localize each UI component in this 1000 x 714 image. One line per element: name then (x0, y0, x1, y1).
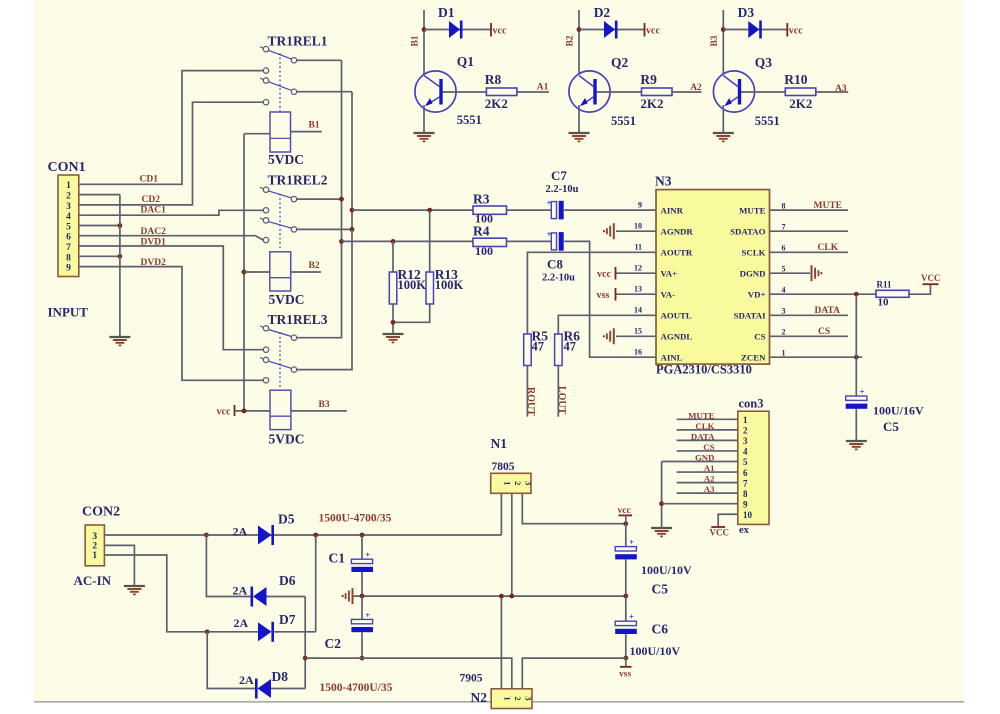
svg-text:6: 6 (782, 244, 786, 253)
svg-text:CON2: CON2 (82, 505, 120, 520)
svg-text:2.2-10u: 2.2-10u (546, 184, 579, 195)
svg-text:2.2-10u: 2.2-10u (542, 273, 575, 284)
wire relay1 coil left to VCC bus (244, 133, 270, 135)
wire con3 pin5 GND (662, 461, 738, 463)
svg-text:C8: C8 (547, 257, 563, 272)
svg-text:8: 8 (66, 253, 71, 263)
svg-text:N1: N1 (491, 436, 508, 451)
svg-text:10: 10 (743, 510, 753, 520)
svg-text:AOUTL: AOUTL (661, 311, 692, 321)
N3 pin12 VA+ stub (616, 272, 657, 274)
svg-text:100: 100 (475, 244, 493, 258)
wire C2 bottom to negative rail (361, 632, 363, 658)
svg-text:DAC2: DAC2 (141, 227, 167, 237)
wire Q1 base to R (443, 91, 487, 93)
svg-text:B2: B2 (309, 261, 320, 271)
wire CON2 pin2 to ground (104, 545, 134, 586)
svg-text:DATA: DATA (691, 431, 715, 441)
svg-text:100U/10V: 100U/10V (630, 644, 681, 658)
svg-text:vcc: vcc (646, 26, 660, 37)
svg-text:SDATAI: SDATAI (734, 311, 767, 321)
wire R4 net from bus V1 (342, 240, 474, 242)
svg-text:MUTE: MUTE (814, 201, 843, 211)
node B2 diode tap (577, 27, 582, 32)
ground of Q2 (569, 132, 590, 134)
svg-text:ROUT: ROUT (525, 387, 536, 416)
svg-text:C5: C5 (652, 582, 669, 597)
ground of Q1 (414, 132, 435, 134)
wire C6 top (625, 596, 627, 621)
svg-text:B3: B3 (710, 35, 720, 46)
wire N3 pin14 to R6 (558, 315, 656, 334)
power port vcc of D1 (490, 23, 492, 37)
svg-text:1500U-4700/35: 1500U-4700/35 (319, 513, 392, 525)
wire R3 to C7 (507, 209, 552, 211)
wire Q3 base to R (741, 91, 785, 93)
svg-text:1: 1 (66, 181, 71, 191)
svg-text:vss: vss (619, 670, 631, 680)
wire N3 pin7 SDATAO stub (770, 230, 849, 232)
wire C7 to N3 pin9 (564, 209, 656, 211)
svg-text:+: + (860, 388, 865, 397)
resistor R10 (785, 88, 816, 96)
svg-text:2: 2 (66, 192, 71, 202)
svg-text:5: 5 (66, 222, 71, 232)
node C2 on negative rail line (360, 656, 365, 661)
relay TR1REL2 actuator dashed line (279, 194, 281, 252)
node bus V2 joins R3 net (350, 208, 355, 213)
svg-text:1: 1 (502, 481, 512, 485)
svg-text:8: 8 (743, 489, 748, 499)
relay TR1REL3 switch B contacts (260, 357, 263, 359)
svg-text:D3: D3 (738, 5, 755, 20)
svg-text:C1: C1 (329, 551, 346, 566)
wire DAC1 from CON1 pin4 to relay2 (79, 210, 263, 215)
wire bus V2 vertical (left channel) (351, 92, 353, 230)
svg-text:DATA: DATA (815, 306, 841, 316)
svg-text:2A: 2A (234, 616, 249, 630)
svg-text:2K2: 2K2 (485, 96, 508, 111)
ground of R12/R13 (383, 333, 404, 335)
wire VCC node down to C5b (625, 524, 627, 547)
ground of CON2 (124, 585, 145, 587)
wire coil B1 output (291, 131, 322, 133)
svg-text:VD+: VD+ (748, 289, 766, 299)
svg-text:2A: 2A (239, 673, 254, 687)
svg-text:2: 2 (92, 542, 97, 552)
sheet bottom border (34, 701, 964, 703)
relay TR1REL1 switch A contacts (260, 47, 263, 49)
svg-text:CLK: CLK (695, 421, 714, 431)
wire diode D1 row (424, 29, 491, 31)
wire CON1 pin2 to ground bus (79, 194, 120, 196)
wire D7 to positive rail riser (273, 631, 316, 633)
wire CD1 from CON1 pin1 to relay1 (79, 71, 263, 185)
svg-text:1: 1 (743, 415, 748, 425)
capacitor C8 (551, 233, 556, 250)
wire con3 pin10 to VCC (718, 514, 738, 527)
wire relay3 poleA to bus V1 (297, 241, 342, 337)
node AC2 branch (205, 629, 210, 634)
node VD+ / C5 junction (854, 292, 859, 297)
wire N3 pin3 SDATAI (770, 314, 849, 316)
wire N3 pin1 ZCEN (770, 356, 863, 358)
diode D1 (449, 21, 460, 38)
resistor R5 (524, 334, 532, 366)
node relay3 coil vcc junction (242, 409, 247, 414)
relay TR1REL2 switch B contacts (260, 218, 263, 220)
wire C5 to ground (855, 409, 857, 441)
wire con3 pin6 A1 (677, 471, 738, 473)
svg-text:2K2: 2K2 (640, 96, 663, 111)
resistor R3 (473, 206, 507, 214)
svg-text:CS: CS (703, 442, 714, 452)
svg-text:VA-: VA- (661, 289, 676, 299)
svg-text:6: 6 (66, 233, 71, 243)
wire C8 to N3 pin16 (564, 241, 656, 357)
svg-text:CD1: CD1 (140, 175, 159, 185)
svg-text:2: 2 (743, 426, 748, 436)
node con3 pin9 ground junction (659, 501, 664, 506)
svg-text:3: 3 (92, 532, 97, 542)
svg-text:+: + (366, 611, 371, 620)
svg-text:D1: D1 (438, 5, 455, 20)
resistor R6 (555, 334, 563, 366)
wire N3 pin4 VD+ to R11 (770, 293, 877, 295)
wire R4 to C8 (507, 240, 552, 242)
N3 pin10 AGNDR stub (616, 230, 656, 232)
svg-text:con3: con3 (739, 397, 764, 411)
svg-text:B2: B2 (566, 35, 576, 46)
wire con3 pin2 CLK (677, 429, 738, 431)
svg-text:+: + (629, 538, 634, 547)
transistor Q3 body (713, 71, 754, 112)
wire CON2 pin3 AC input (104, 534, 206, 536)
svg-text:CLK: CLK (818, 243, 839, 253)
svg-text:4: 4 (743, 447, 748, 457)
resistor R11 (876, 290, 909, 297)
node C5b/C6 midpoint (623, 594, 628, 599)
wire relay2 poleB to bus V2 (297, 228, 352, 230)
wire negative rail riser (304, 597, 306, 689)
svg-text:R10: R10 (784, 72, 807, 87)
N3 pin15 AGNDL stub (616, 335, 656, 337)
diode D2 (604, 21, 615, 38)
svg-text:vcc: vcc (618, 506, 631, 516)
svg-text:A3: A3 (704, 484, 715, 494)
svg-text:7: 7 (66, 243, 71, 253)
svg-text:3: 3 (743, 436, 748, 446)
capacitor C1 (351, 559, 372, 563)
node VSS output (623, 656, 628, 661)
node CON1 pin5 ground (118, 223, 123, 228)
svg-text:100U/16V: 100U/16V (873, 404, 924, 418)
svg-text:2A: 2A (233, 525, 248, 539)
svg-text:SDATAO: SDATAO (730, 226, 766, 236)
ground of CON1 (109, 336, 130, 338)
node bus V1 joins R4 net (339, 239, 344, 244)
wire base net B2 vertical (578, 10, 580, 74)
svg-text:47: 47 (564, 340, 577, 354)
svg-text:6: 6 (743, 468, 748, 478)
svg-text:10: 10 (878, 297, 890, 309)
wire DVD2 from CON1 pin9 to relay3 (79, 267, 263, 381)
wire Q2 emitter down (578, 105, 580, 133)
svg-text:4: 4 (782, 285, 786, 294)
svg-text:2: 2 (513, 696, 523, 700)
wire con3 pin7 A2 (677, 482, 738, 484)
svg-text:R8: R8 (485, 72, 502, 87)
svg-text:D8: D8 (272, 669, 289, 684)
svg-text:+: + (547, 230, 552, 239)
wire coil B3 output (291, 410, 347, 412)
wire N3 pin11 to R5 (527, 252, 656, 334)
svg-text:9: 9 (743, 499, 748, 509)
svg-text:A3: A3 (835, 84, 847, 94)
wire C1 from positive rail (361, 535, 363, 559)
capacitor C5 (100U/10V) (615, 547, 636, 551)
resistor R12 (389, 272, 397, 304)
svg-text:vss: vss (597, 290, 610, 301)
wire CON1 pin5 to ground bus (79, 225, 120, 227)
svg-text:100U/10V: 100U/10V (641, 563, 692, 577)
svg-text:5VDC: 5VDC (269, 292, 305, 307)
wire VD+ node down to C5 (855, 294, 857, 396)
svg-text:R11: R11 (877, 280, 893, 290)
node R13 top on R3 net (427, 208, 432, 213)
capacitor C7 (551, 202, 556, 219)
wire N3 pin8 MUTE (770, 209, 849, 211)
svg-text:CS: CS (818, 327, 830, 337)
wire R9 to A2 (672, 91, 702, 93)
wire bus V1 vertical (right channel) (341, 60, 343, 241)
svg-text:10: 10 (634, 221, 642, 230)
svg-text:DAC1: DAC1 (141, 206, 167, 216)
diode D8 (255, 679, 258, 699)
capacitor C5 (100U/16V) (846, 396, 867, 400)
relay TR1REL2 switch A contacts (260, 187, 263, 189)
svg-text:DVD1: DVD1 (141, 238, 167, 248)
svg-text:3: 3 (523, 696, 533, 700)
wire C6 bottom to VSS node (625, 634, 627, 658)
wire D6 to negative rail riser (267, 596, 306, 598)
svg-text:B1: B1 (411, 35, 421, 46)
wire positive rail riser (315, 535, 317, 632)
wire base net B3 vertical (722, 10, 724, 74)
svg-text:GND: GND (695, 453, 715, 463)
svg-text:5551: 5551 (611, 114, 636, 128)
resistor R4 (473, 238, 507, 246)
node R12 top on R4 net (391, 239, 396, 244)
svg-text:AGNDL: AGNDL (661, 332, 693, 342)
wire DVD1 from CON1 pin7 to relay3 (79, 246, 263, 350)
transistor Q2 body (569, 71, 610, 112)
svg-text:12: 12 (634, 263, 642, 272)
svg-text:CON1: CON1 (48, 160, 86, 175)
node ZCEN / C5 junction (854, 355, 859, 360)
wire D5 row to N1 (206, 534, 501, 536)
wire CD2 from CON1 pin3 to relay1 (79, 102, 263, 205)
relay TR1REL2 coil (270, 252, 291, 291)
svg-text:C7: C7 (551, 168, 567, 183)
diode D5 (258, 526, 272, 545)
svg-text:SCLK: SCLK (742, 248, 766, 258)
power port vcc at N1 output (619, 514, 633, 516)
wire CON1 pin8 to ground bus (79, 255, 120, 257)
svg-text:vcc: vcc (597, 269, 611, 280)
wire R13 top (429, 210, 431, 272)
wire con3 pin4 CS (677, 450, 738, 452)
svg-text:11: 11 (634, 243, 642, 252)
svg-text:C5: C5 (883, 419, 899, 434)
node bus V1 / relay2 poleA (339, 197, 344, 202)
svg-text:7: 7 (743, 478, 748, 488)
wire N3 pin5 DGND stub (770, 272, 811, 274)
power port vss below C6 (625, 658, 627, 666)
wire CON1 ground bus (119, 195, 121, 337)
svg-text:AGNDR: AGNDR (661, 226, 694, 236)
svg-text:C6: C6 (652, 622, 669, 637)
svg-text:9: 9 (66, 264, 71, 274)
svg-text:14: 14 (634, 306, 642, 315)
svg-text:8: 8 (782, 201, 786, 210)
relay TR1REL3 coil (270, 390, 291, 429)
wire diode D3 row (723, 29, 787, 31)
svg-text:A1: A1 (537, 83, 549, 93)
wire relay2 coil left (244, 271, 270, 273)
svg-text:47: 47 (532, 340, 545, 354)
svg-text:D6: D6 (279, 573, 296, 588)
wire relay2 poleA to bus V1 (297, 198, 342, 200)
svg-text:2A: 2A (233, 584, 248, 598)
svg-text:D7: D7 (279, 612, 296, 627)
svg-text:Q2: Q2 (611, 55, 629, 70)
svg-text:+: + (547, 199, 552, 208)
svg-text:CD2: CD2 (142, 195, 161, 205)
wire relay1 poleB to bus V2 (297, 91, 352, 93)
power port vcc of D3 (786, 23, 788, 37)
svg-text:R3: R3 (473, 192, 490, 207)
wire DAC2 from CON1 pin6 to relay2 (79, 236, 263, 240)
svg-text:AC-IN: AC-IN (74, 573, 112, 588)
svg-text:N2: N2 (471, 690, 488, 705)
svg-text:2: 2 (782, 328, 786, 337)
wire CON2 pin1 to D7/D8 (104, 555, 207, 632)
svg-text:VA+: VA+ (661, 268, 678, 278)
connector con3 (738, 411, 769, 524)
svg-text:R9: R9 (640, 72, 657, 87)
svg-text:vcc: vcc (493, 26, 507, 37)
svg-text:3: 3 (782, 307, 786, 316)
connector CON1 (58, 175, 79, 277)
wire N1 pin3 output to VCC node (522, 493, 626, 523)
svg-text:CS: CS (754, 332, 765, 342)
wire relay3 poleB to bus V2 (297, 229, 352, 369)
svg-text:VCC: VCC (710, 528, 730, 538)
wire Q3 emitter down (722, 105, 724, 133)
svg-text:5551: 5551 (755, 114, 780, 128)
wire mid ground line (353, 595, 626, 597)
wire VCC bus vertical (243, 134, 245, 411)
svg-text:9: 9 (638, 200, 642, 209)
resistor R9 (642, 88, 673, 96)
voltage regulator N2 7905 (491, 689, 532, 709)
node negative rail / C2 line (303, 656, 308, 661)
svg-text:INPUT: INPUT (48, 305, 89, 320)
svg-text:3: 3 (523, 481, 533, 485)
svg-text:5: 5 (782, 264, 786, 273)
svg-text:AOUTR: AOUTR (661, 248, 693, 258)
svg-text:DVD2: DVD2 (141, 258, 167, 268)
svg-text:VCC: VCC (921, 273, 941, 283)
wire R12 top (392, 241, 394, 272)
power port vcc of D2 (644, 23, 646, 37)
wire D8 to negative rail riser (271, 688, 305, 690)
node R12/R13 ground junction (391, 320, 396, 325)
node N2 pin1 ground junction (499, 594, 504, 599)
wire R8 to A1 (517, 91, 549, 93)
svg-text:TR1REL2: TR1REL2 (268, 173, 328, 188)
node N1 pin2 ground junction (509, 594, 514, 599)
wire N3 pin2 CS (770, 335, 849, 337)
connector CON2 (85, 525, 104, 566)
resistor R8 (486, 88, 517, 96)
svg-text:MUTE: MUTE (739, 205, 766, 215)
svg-text:PGA2310/CS3310: PGA2310/CS3310 (656, 363, 752, 377)
diode D3 (748, 21, 759, 38)
svg-text:DGND: DGND (740, 268, 766, 278)
wire R12/R13 bottoms to ground (393, 304, 430, 322)
relay TR1REL3 actuator dashed line (279, 332, 281, 389)
svg-text:N3: N3 (655, 174, 672, 189)
wire diode D2 row (579, 29, 645, 31)
svg-text:+: + (366, 551, 371, 560)
N3 pin13 VA- stub (616, 293, 657, 295)
svg-text:5: 5 (743, 457, 748, 467)
ground of con3 (651, 527, 672, 529)
svg-text:1: 1 (782, 348, 786, 357)
capacitor C2 (351, 619, 372, 623)
capacitor C6 (100U/10V) (615, 621, 636, 625)
svg-text:4: 4 (66, 212, 71, 222)
svg-text:+: + (629, 613, 634, 622)
ground of Q3 (713, 132, 734, 134)
node B1 diode tap (422, 27, 427, 32)
power port VCC at con3 pin10 (711, 526, 725, 528)
svg-text:7905: 7905 (460, 673, 483, 685)
svg-text:D5: D5 (278, 512, 295, 527)
svg-text:1: 1 (92, 551, 97, 561)
diode D7 (258, 622, 272, 641)
svg-text:5VDC: 5VDC (269, 432, 305, 447)
node C1 riser junction (360, 533, 365, 538)
svg-text:B1: B1 (309, 121, 320, 131)
wire D7 input (207, 631, 258, 633)
wire AC1 down to D6 (206, 535, 251, 597)
svg-text:2: 2 (513, 481, 523, 485)
node C1/C2 midpoint (360, 594, 365, 599)
wire R5 to ROUT (526, 366, 528, 417)
svg-text:Q1: Q1 (457, 54, 475, 69)
svg-text:TR1REL1: TR1REL1 (268, 34, 328, 49)
svg-text:C2: C2 (325, 636, 342, 651)
wire VSS line from N2 output (522, 658, 626, 689)
wire Q2 base to R (597, 91, 642, 93)
wire C1 to mid ground line (361, 572, 363, 596)
ground at N3 pin15 (613, 328, 615, 344)
svg-text:1500-4700U/35: 1500-4700U/35 (320, 682, 393, 694)
wire R3 net from bus V2 (352, 209, 473, 211)
